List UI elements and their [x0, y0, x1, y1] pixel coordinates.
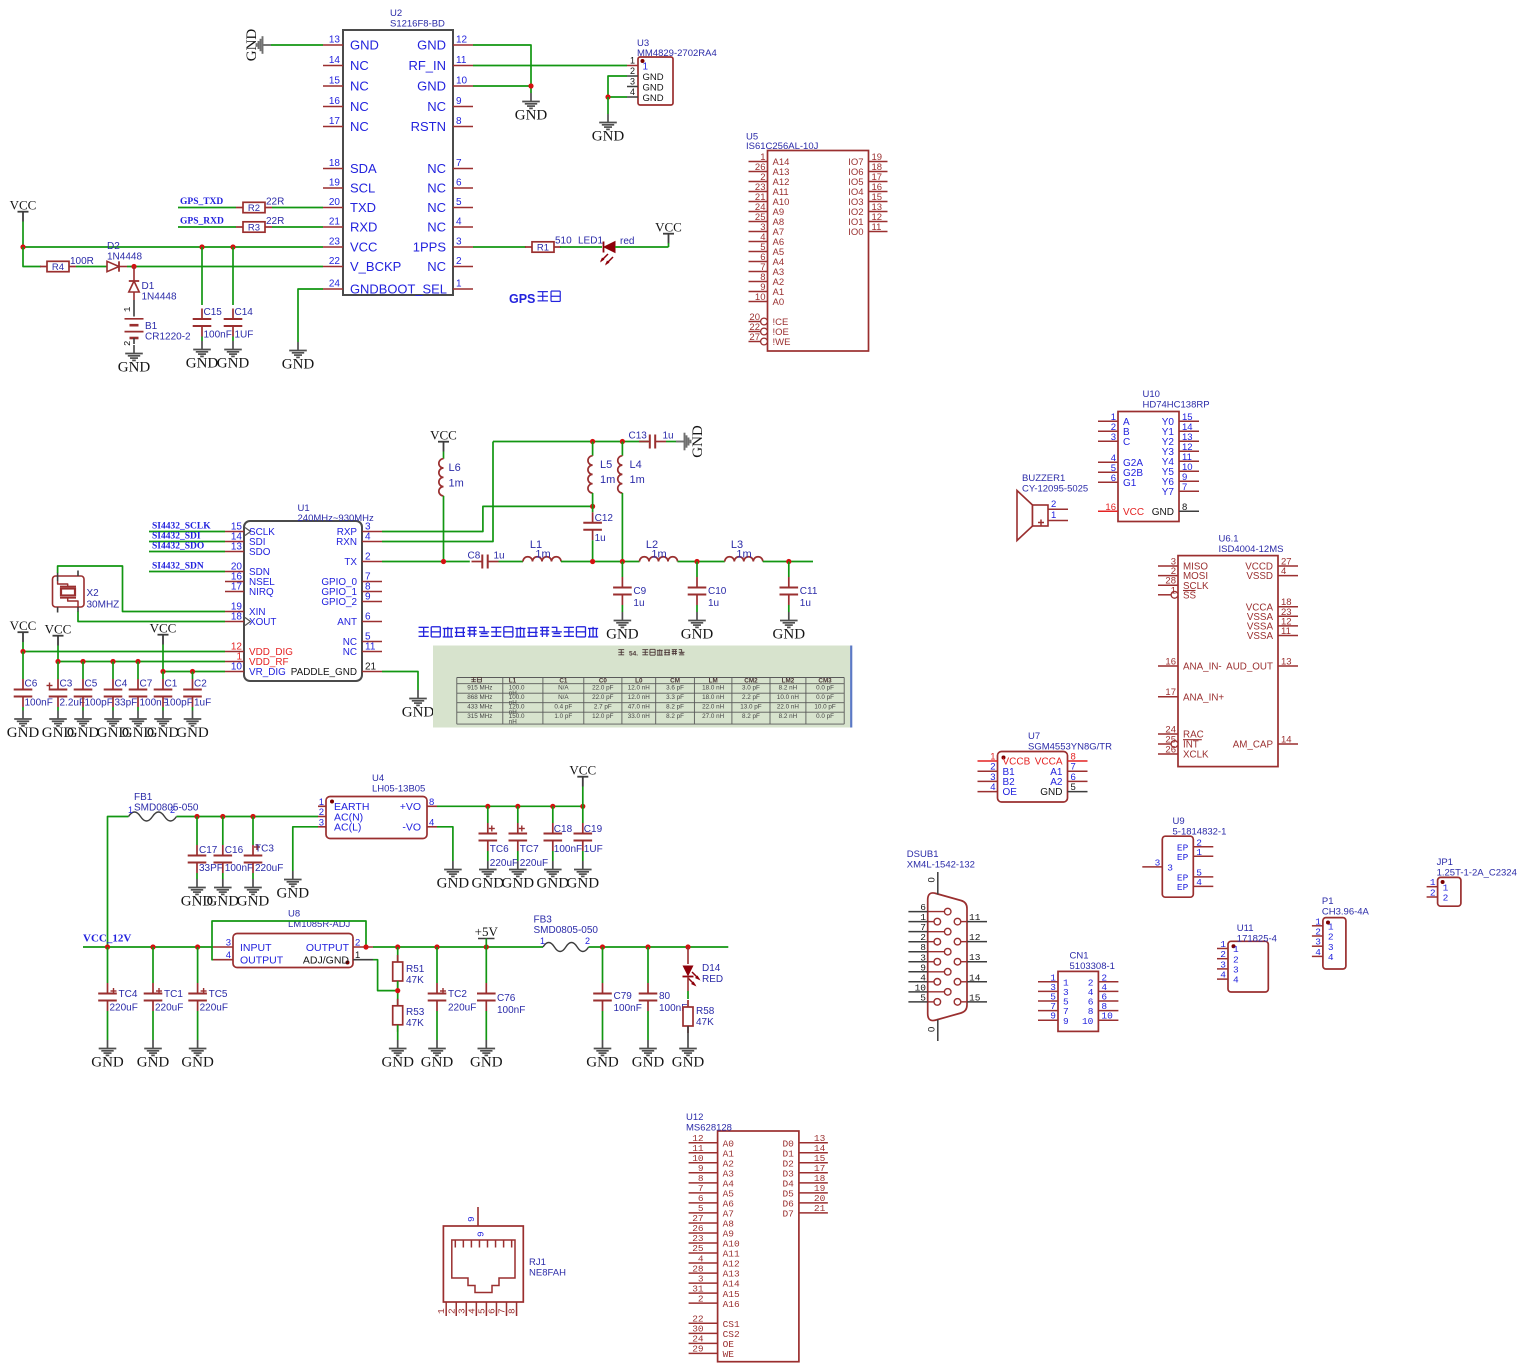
- svg-text:1u: 1u: [800, 598, 811, 609]
- svg-text:U8: U8: [288, 909, 300, 920]
- capacitor C8 1u: [472, 555, 499, 569]
- wire C3 down: [57, 707, 59, 711]
- svg-text:VSSA: VSSA: [1247, 631, 1274, 642]
- U12 pin 26 A9: [689, 1223, 735, 1239]
- svg-text:TC7: TC7: [520, 844, 539, 855]
- wire U4 -VO to gnd: [437, 827, 453, 861]
- svg-text:VR_DIG: VR_DIG: [249, 667, 286, 678]
- junction C14 top: [230, 244, 235, 249]
- DSUB1 pin 5: [908, 992, 940, 1005]
- svg-text:8.2 pF: 8.2 pF: [666, 713, 684, 720]
- U10 pin 1 A: [1098, 412, 1130, 428]
- IC U4 LH05-13B05 body: [326, 797, 427, 839]
- svg-text:OUTPUT: OUTPUT: [240, 955, 284, 967]
- wire C9 down: [621, 605, 623, 612]
- svg-text:8.2 pF: 8.2 pF: [742, 713, 760, 720]
- inductor L6 1m: [439, 459, 444, 496]
- svg-text:3: 3: [456, 237, 462, 248]
- svg-text:C1: C1: [559, 677, 568, 684]
- wire SI4432_SCLK: [149, 531, 225, 533]
- svg-text:3: 3: [319, 817, 324, 828]
- junction L4 top: [620, 439, 625, 444]
- wire C17 up: [196, 817, 198, 846]
- svg-text:220uF: 220uF: [255, 863, 283, 874]
- U5 pin 9 A1: [749, 282, 785, 298]
- wire C12 down: [592, 540, 594, 561]
- svg-text:510: 510: [555, 236, 572, 247]
- svg-text:13: 13: [231, 542, 243, 553]
- svg-text:GND: GND: [567, 876, 600, 892]
- junction VR_DIG x163: [160, 669, 165, 674]
- svg-text:RJ1: RJ1: [529, 1257, 546, 1268]
- wire XIN to X2: [58, 566, 225, 612]
- svg-text:CY-12095-5025: CY-12095-5025: [1022, 484, 1088, 495]
- svg-text:EP: EP: [1177, 852, 1189, 863]
- U11 pin 1 1: [1217, 939, 1239, 955]
- svg-text:19: 19: [329, 178, 341, 189]
- svg-text:1: 1: [1051, 510, 1056, 521]
- power flag VCC rail2: [45, 622, 72, 646]
- RJ1 pin 4: [466, 1302, 477, 1316]
- svg-text:100pF: 100pF: [85, 698, 113, 709]
- DSUB1 shell pin 0 bottom: [927, 1020, 938, 1042]
- U5 pin 4 A6: [749, 232, 785, 248]
- svg-text:22R: 22R: [266, 216, 284, 227]
- wire U2 pin24 to gnd: [298, 289, 323, 342]
- svg-text:1u: 1u: [494, 551, 505, 562]
- svg-text:GND: GND: [672, 1055, 705, 1071]
- svg-text:1u: 1u: [663, 431, 674, 442]
- table row 433 MHz: [467, 704, 836, 716]
- svg-text:1: 1: [355, 950, 360, 961]
- svg-text:C8: C8: [468, 551, 481, 562]
- U5 pin 5 A5: [749, 242, 785, 258]
- svg-text:R3: R3: [248, 223, 260, 234]
- svg-text:VCC: VCC: [350, 240, 377, 255]
- U4 pin-1 marker: [330, 800, 334, 804]
- connector U3 MM4829-2702RA4 body: [638, 57, 673, 105]
- U2 pin 22 V_BCKP: [323, 256, 401, 274]
- U12 pin 20 D6: [782, 1193, 827, 1209]
- U12 pin 24 OE: [689, 1334, 735, 1350]
- U12 pin 9 A3: [689, 1163, 735, 1179]
- U2 pin 9 NC: [427, 96, 473, 114]
- svg-text:3.3 pF: 3.3 pF: [666, 694, 684, 701]
- svg-text:22.0 nH: 22.0 nH: [777, 704, 800, 711]
- diode D2 1N4448: [76, 261, 127, 271]
- U12 pin 30 CS2: [689, 1324, 740, 1340]
- wire SI4432_SDO: [149, 551, 225, 553]
- U6.1 pin 16 ANA_IN-: [1158, 657, 1222, 673]
- JP1 pin-1 marker: [1441, 880, 1445, 884]
- svg-text:R1: R1: [537, 243, 549, 254]
- junction ADJ divider: [395, 988, 400, 993]
- wire C8 to L1: [499, 561, 524, 563]
- svg-text:NC: NC: [427, 161, 446, 176]
- svg-text:NC: NC: [350, 99, 369, 114]
- wire D14 to R58: [687, 991, 689, 999]
- svg-text:GND: GND: [91, 1055, 124, 1071]
- U5 pin 25 A8: [749, 212, 785, 228]
- svg-text:22.0 nH: 22.0 nH: [702, 704, 725, 711]
- svg-text:VCC: VCC: [430, 428, 457, 443]
- wire U3 pin2 pin4 gnd: [608, 76, 627, 97]
- capacitor 80 100nF: [639, 983, 688, 1014]
- svg-text:SMD0805-050: SMD0805-050: [534, 925, 599, 936]
- svg-text:3: 3: [1167, 863, 1173, 874]
- U12 pin 8 A4: [689, 1173, 735, 1189]
- junction +VO x487.8: [485, 804, 490, 809]
- U5 pin 12 IO1: [848, 212, 887, 228]
- CN1 pin 5 5: [1038, 992, 1069, 1008]
- junction D1 branch: [131, 264, 136, 269]
- wire SI4432_SDI: [149, 541, 225, 543]
- IC CN1 5103308-1 body: [1058, 971, 1098, 1031]
- power flag VCC left: [10, 198, 37, 222]
- junction rail x197.6: [195, 944, 200, 949]
- svg-text:NC: NC: [343, 647, 357, 658]
- svg-text:L1: L1: [509, 677, 517, 684]
- wire C18 up: [552, 806, 554, 823]
- inductor L2 1m: [640, 557, 678, 562]
- svg-text:18: 18: [231, 612, 243, 623]
- junction pin10/pin12 gnd: [528, 83, 533, 88]
- svg-text:1N4448: 1N4448: [107, 252, 142, 263]
- U8 pin 3 INPUT: [213, 938, 272, 954]
- wire SI4432_SDN: [149, 571, 225, 573]
- svg-text:220uF: 220uF: [490, 858, 518, 869]
- svg-text:3.6 pF: 3.6 pF: [666, 685, 684, 692]
- ground below U2 pin10: [515, 93, 548, 124]
- svg-text:AM_CAP: AM_CAP: [1233, 740, 1274, 751]
- svg-text:U2: U2: [390, 8, 402, 19]
- power flag VCC rail1: [10, 618, 37, 642]
- junction out x437: [434, 944, 439, 949]
- svg-text:NC: NC: [427, 220, 446, 235]
- U10 pin 8 GND: [1152, 502, 1199, 518]
- svg-text:G1: G1: [1123, 478, 1137, 489]
- wire C79 down: [602, 1011, 604, 1040]
- wire TC4 up: [107, 947, 109, 983]
- U2 pin 23 VCC: [323, 237, 377, 255]
- ground below C5: [67, 711, 100, 742]
- U6.1 pin 27 VCCD: [1245, 557, 1298, 573]
- capacitor TC3 220uF: [244, 844, 284, 875]
- capacitor C3 2.2uF: [47, 679, 86, 709]
- crystal X2 30MHZ: [53, 571, 85, 613]
- U12 pin 21 D7: [782, 1203, 827, 1219]
- svg-text:1: 1: [630, 56, 635, 66]
- capacitor C19 1UF: [574, 823, 603, 855]
- wire C11 down: [788, 605, 790, 612]
- U5 pin 20 !CE: [749, 312, 789, 328]
- U1 pin 13 SDO: [225, 542, 271, 559]
- U4 pin 3 AC(L): [318, 817, 361, 833]
- svg-text:L5: L5: [600, 459, 612, 471]
- svg-text:80: 80: [659, 991, 671, 1002]
- U2 pin 21 RXD: [323, 217, 377, 235]
- wire C79 up: [602, 947, 604, 983]
- capacitor TC6 220uF: [479, 823, 519, 869]
- svg-text:ANA_IN+: ANA_IN+: [1183, 692, 1224, 703]
- svg-text:433 MHz: 433 MHz: [467, 704, 492, 711]
- svg-text:171825-4: 171825-4: [1237, 934, 1277, 945]
- wire U2 RF_IN to U3 pin1: [473, 65, 627, 67]
- wire TC3 up: [252, 817, 254, 846]
- svg-text:C18: C18: [554, 824, 573, 835]
- wire L6 to TX line: [443, 496, 445, 562]
- svg-text:12.0 nH: 12.0 nH: [628, 685, 651, 692]
- wire R58 to gnd: [687, 1026, 689, 1040]
- junction L5 top: [590, 439, 595, 444]
- svg-text:C7: C7: [140, 679, 153, 690]
- wire TC2 down: [436, 1011, 438, 1040]
- svg-text:C17: C17: [199, 845, 218, 856]
- svg-text:15: 15: [969, 992, 981, 1003]
- ground below C15: [186, 341, 219, 372]
- U6.1 pin 28 SCLK: [1158, 576, 1209, 592]
- svg-text:1m: 1m: [651, 549, 666, 561]
- U3 pin 3 GND: [627, 77, 664, 94]
- svg-text:GND: GND: [350, 38, 379, 53]
- capacitor C76 100nF: [477, 983, 525, 1016]
- junction rail x107.5: [105, 944, 110, 949]
- wire ADJ to divider: [373, 960, 398, 991]
- ground below U3: [592, 114, 625, 145]
- junction cap x197: [194, 814, 199, 819]
- IC U9 5-1814832-1 body: [1162, 836, 1193, 897]
- wire LED1 to VCC: [615, 246, 669, 248]
- wire C14 down: [232, 337, 234, 342]
- wire U4 AC(L) to gnd: [293, 827, 318, 871]
- svg-text:2: 2: [1051, 499, 1056, 510]
- U2 pin 20 TXD: [323, 197, 376, 215]
- svg-text:NE8FAH: NE8FAH: [529, 1268, 566, 1279]
- svg-text:100nF: 100nF: [497, 1005, 525, 1016]
- svg-text:100nF: 100nF: [25, 698, 53, 709]
- wire U2 pin10 GND: [473, 85, 531, 87]
- svg-text:C1: C1: [165, 679, 178, 690]
- svg-text:S1216F8-BD: S1216F8-BD: [390, 19, 445, 30]
- svg-text:VCC: VCC: [655, 220, 682, 235]
- junction +VO x582.8: [580, 804, 585, 809]
- svg-text:4: 4: [1196, 877, 1202, 888]
- svg-text:18.0 nH: 18.0 nH: [702, 694, 725, 701]
- wire 1PPS to R1: [473, 246, 526, 248]
- svg-text:47K: 47K: [406, 1018, 424, 1029]
- svg-text:0: 0: [927, 1027, 938, 1032]
- U2 pin 6 NC: [427, 178, 473, 196]
- ground below C3: [42, 711, 75, 742]
- svg-text:RSTN: RSTN: [411, 119, 446, 134]
- power flag VCC rail3: [150, 621, 177, 645]
- svg-text:1.25T-1-2A_C2324: 1.25T-1-2A_C2324: [1437, 868, 1517, 879]
- U1 pin 10 VR_DIG: [225, 662, 286, 679]
- wire C7 up: [137, 662, 139, 680]
- U10 pin 16 VCC: [1098, 502, 1144, 518]
- svg-text:100nF: 100nF: [204, 330, 232, 341]
- U3 pin 2 GND: [627, 66, 664, 83]
- svg-text:220uF: 220uF: [520, 858, 548, 869]
- wire C6 down: [22, 707, 24, 711]
- svg-text:R53: R53: [406, 1007, 425, 1018]
- ground below TC6: [472, 861, 505, 892]
- U5 pin 10 A0: [749, 292, 785, 308]
- svg-text:2: 2: [365, 552, 371, 563]
- svg-text:2: 2: [698, 1293, 704, 1304]
- svg-text:6: 6: [365, 612, 371, 623]
- U5 pin 22 !OE: [749, 322, 789, 338]
- junction C11 top: [786, 559, 791, 564]
- U5 pin 15 IO3: [848, 192, 887, 208]
- capacitor C18 100nF: [544, 823, 583, 855]
- svg-text:TC3: TC3: [255, 844, 274, 855]
- capacitor TC7 220uF: [509, 823, 549, 869]
- U5 pin 17 IO5: [848, 172, 887, 188]
- svg-text:3: 3: [1155, 857, 1161, 868]
- wire VDD_DIG rail: [23, 651, 225, 653]
- svg-text:U4: U4: [372, 773, 384, 784]
- svg-text:SDO: SDO: [249, 547, 271, 558]
- junction C15 top: [199, 244, 204, 249]
- wire VR_DIG rail: [163, 671, 225, 673]
- wire C7 down: [137, 707, 139, 711]
- U6.1 pin 18 VCCA: [1246, 597, 1298, 613]
- ground below TC5: [181, 1040, 214, 1071]
- wire C6 up: [22, 652, 24, 680]
- U2 pin 3 1PPS: [413, 237, 473, 255]
- svg-text:8: 8: [507, 1308, 518, 1314]
- power flag VCC at U4: [569, 763, 596, 787]
- U2 pin 16 NC: [323, 96, 369, 114]
- svg-text:1m: 1m: [736, 549, 751, 561]
- capacitor C12 1u: [583, 512, 613, 544]
- svg-text:47.0 nH: 47.0 nH: [628, 704, 651, 711]
- U12 pin 31 A15: [689, 1283, 740, 1299]
- svg-text:8.2 nH: 8.2 nH: [779, 685, 798, 692]
- svg-text:D14: D14: [702, 963, 721, 974]
- ground below R53: [381, 1040, 414, 1071]
- U6.1 pin 24 RAC: [1158, 725, 1204, 741]
- svg-text:100nF: 100nF: [554, 844, 582, 855]
- svg-text:C3: C3: [60, 679, 73, 690]
- svg-text:14: 14: [329, 55, 341, 66]
- svg-text:1UF: 1UF: [584, 844, 603, 855]
- svg-text:XOUT: XOUT: [249, 617, 276, 628]
- U5 pin 18 IO6: [848, 162, 887, 178]
- U10 pin 11 Y4: [1162, 452, 1199, 468]
- svg-text:GND: GND: [632, 1055, 665, 1071]
- svg-text:TX: TX: [344, 557, 357, 568]
- U6.1 pin 11 VSSA: [1247, 626, 1298, 642]
- svg-text:C5: C5: [85, 679, 98, 690]
- svg-text:GND: GND: [207, 894, 240, 910]
- svg-text:GND: GND: [643, 82, 664, 93]
- svg-text:18: 18: [329, 158, 341, 169]
- ground below TC1: [137, 1040, 170, 1071]
- svg-text:ADJ/GND: ADJ/GND: [303, 955, 350, 967]
- wire C18 down: [552, 851, 554, 861]
- table image frequency matching panel: [433, 646, 850, 728]
- svg-text:12.0 pF: 12.0 pF: [592, 713, 614, 720]
- U12 pin 17 D3: [782, 1163, 827, 1179]
- DSUB1 pin 1: [908, 912, 940, 925]
- svg-text:GND: GND: [7, 725, 40, 741]
- DSUB1 pin 10: [908, 982, 951, 995]
- wire C14 up: [232, 247, 234, 305]
- U7 pin 5 GND: [1040, 782, 1087, 798]
- svg-text:XCLK: XCLK: [1183, 750, 1209, 761]
- wire R3 to U2 RXD: [272, 226, 323, 228]
- CN1 pin 9 9: [1038, 1011, 1069, 1027]
- wire C9 up: [621, 562, 623, 578]
- svg-text:1: 1: [456, 279, 462, 290]
- svg-text:C11: C11: [800, 586, 818, 597]
- svg-text:N/A: N/A: [558, 685, 569, 692]
- svg-text:315 MHz: 315 MHz: [467, 713, 492, 720]
- junction out x486.3: [484, 944, 489, 949]
- svg-text:U10: U10: [1143, 389, 1160, 400]
- ground below C4: [97, 711, 130, 742]
- svg-text:8.2 pF: 8.2 pF: [666, 704, 684, 711]
- wire VCC to R4: [23, 247, 41, 267]
- svg-text:10: 10: [231, 662, 243, 673]
- U12 pin 5 A7: [689, 1203, 734, 1219]
- svg-text:220uF: 220uF: [200, 1003, 228, 1014]
- junction rail x153: [150, 944, 155, 949]
- wire U3 gnd down: [607, 97, 609, 114]
- svg-text:R58: R58: [696, 1006, 715, 1017]
- svg-text:GPIO_2: GPIO_2: [321, 597, 357, 608]
- U5 pin 24 A9: [749, 202, 785, 218]
- ground at C13: [676, 425, 706, 458]
- svg-text:22.0 pF: 22.0 pF: [592, 685, 614, 692]
- U2 pin 18 SDA: [323, 158, 377, 176]
- CN1 pin 6 6: [1088, 992, 1119, 1008]
- table row 315 MHz: [467, 713, 834, 725]
- capacitor C17 33PF: [188, 845, 223, 874]
- U10 pin 12 Y3: [1162, 442, 1199, 458]
- svg-text:FB3: FB3: [534, 915, 553, 926]
- wire L3 to end: [763, 561, 813, 563]
- U3 pin 1 1: [627, 56, 649, 73]
- wire D2 to U2 pin22 V_BCKP: [127, 266, 323, 268]
- svg-text:HD74HC138RP: HD74HC138RP: [1143, 400, 1210, 411]
- svg-text:8: 8: [429, 797, 434, 808]
- svg-text:BUZZER1: BUZZER1: [1022, 473, 1065, 484]
- U6.1 pin 3 MISO: [1158, 557, 1208, 573]
- ground below B1: [118, 345, 151, 376]
- ground below C18: [537, 861, 570, 892]
- svg-text:C14: C14: [235, 307, 254, 318]
- wire FB1 to U4 AC(N): [177, 816, 319, 818]
- wire TC5 down: [197, 1011, 199, 1040]
- svg-text:ISD4004-12MS: ISD4004-12MS: [1219, 544, 1284, 555]
- svg-text:-VO: -VO: [402, 822, 421, 834]
- svg-text:1: 1: [1196, 847, 1202, 858]
- resistor R51 47K: [393, 955, 403, 988]
- U10 pin 6 G1: [1098, 473, 1137, 489]
- svg-text:U12: U12: [686, 1112, 703, 1123]
- svg-text:!WE: !WE: [773, 337, 791, 348]
- svg-text:14: 14: [1281, 735, 1292, 746]
- wire VCC to +VO: [582, 787, 584, 807]
- table grid: [457, 678, 844, 725]
- wire C3 up: [57, 662, 59, 680]
- RJ1 pin 7: [497, 1302, 508, 1316]
- wire U4 +VO rail: [437, 805, 583, 807]
- svg-text:GND: GND: [1040, 787, 1062, 798]
